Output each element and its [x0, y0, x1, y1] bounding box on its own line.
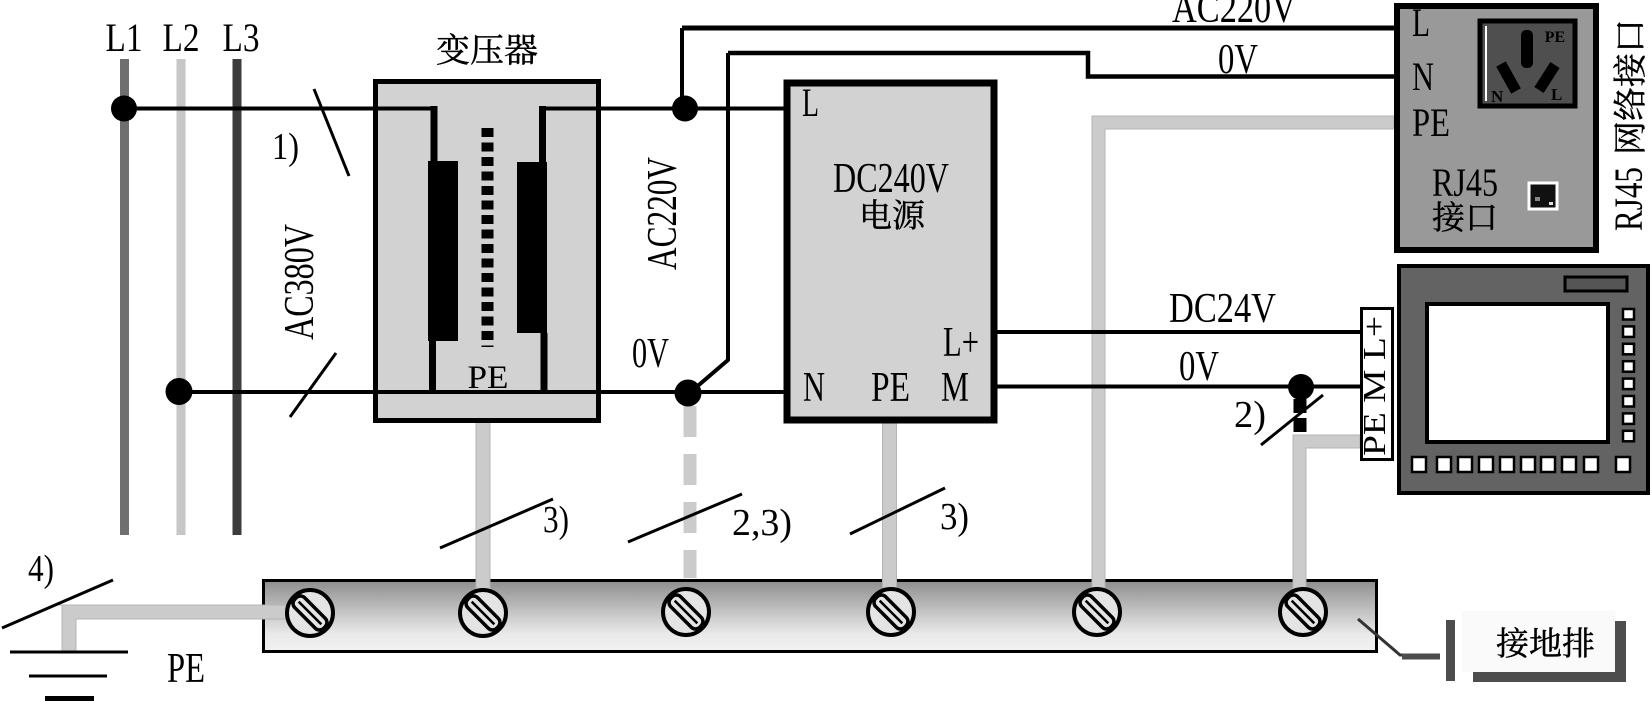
node AC220V junction: [672, 96, 698, 122]
svg-text:AC380V: AC380V: [277, 224, 323, 340]
slash mark 3) right: [850, 488, 945, 534]
wire 0V to RJ45 N (with jog): [728, 53, 1396, 77]
svg-text:PE M L+: PE M L+: [1356, 316, 1392, 456]
svg-text:0V: 0V: [1179, 344, 1219, 390]
svg-text:N: N: [1491, 87, 1504, 106]
wire PE dashed from 0V node to ground bar (gray dashed): [684, 406, 697, 578]
DC supply box: [787, 83, 994, 420]
ground electrode symbol: [10, 652, 128, 699]
svg-text:0V: 0V: [1218, 37, 1258, 83]
svg-text:PE: PE: [1545, 29, 1565, 46]
HMI side keys: [1623, 309, 1634, 441]
svg-text:AC220V: AC220V: [1172, 0, 1296, 32]
transformer title 变压器: [437, 33, 469, 65]
svg-text:3): 3): [940, 496, 969, 538]
screw terminal 5 on ground bar: [1074, 589, 1120, 635]
svg-text:N: N: [1412, 54, 1434, 99]
svg-text:RJ45: RJ45: [1432, 160, 1498, 205]
RJ45 network interface box: [1397, 6, 1596, 250]
slash mark 4): [2, 580, 113, 628]
svg-text:PE: PE: [1412, 100, 1450, 145]
node junction on L2: [166, 378, 193, 405]
transformer core (dashed): [482, 128, 494, 347]
slash mark 2): [1261, 395, 1323, 445]
svg-text:AC220V: AC220V: [640, 157, 686, 270]
transformer secondary winding: [517, 162, 547, 333]
power socket icon: [1480, 21, 1575, 106]
bus L3: [233, 59, 242, 535]
svg-text:4): 4): [28, 548, 54, 590]
screw terminal 3 on ground bar: [663, 589, 709, 635]
wire 0V node to DC supply N: [688, 390, 790, 394]
svg-text:N: N: [803, 365, 825, 411]
svg-text:0V: 0V: [632, 331, 669, 377]
bus L1: [120, 59, 129, 535]
wire PE from DC240V supply to ground bar (gray): [883, 421, 897, 593]
HMI touch panel body: [1399, 266, 1648, 493]
svg-text:2,3): 2,3): [732, 502, 792, 544]
callout line to ground bar: [1358, 619, 1440, 655]
slash mark 1) on L1 wire: [314, 89, 349, 176]
slash mark 2,3): [628, 494, 742, 542]
wire PE from RJ45 box to ground bar (gray L-shape): [1092, 116, 1394, 593]
transformer box: [376, 82, 599, 421]
HMI bottom keys: [1412, 457, 1630, 472]
wire AC220V to RJ45 L: [682, 26, 1396, 31]
svg-text:L3: L3: [223, 15, 260, 60]
HMI screen: [1427, 304, 1608, 442]
HMI top-right slot: [1565, 277, 1627, 291]
screw terminal 6 on ground bar: [1280, 589, 1326, 635]
wire 0V riser: [693, 53, 728, 390]
svg-text:RJ45: RJ45: [1606, 167, 1651, 231]
label AC380V (rotated): [277, 224, 323, 340]
wire 0V M to HMI terminal: [994, 385, 1362, 389]
side label RJ45 网络接口 (rotated): [1606, 22, 1651, 231]
screw terminal 2 on ground bar: [460, 590, 506, 636]
svg-text:L: L: [802, 80, 819, 125]
RJ45 port icon: [1529, 183, 1557, 209]
wire transformer secondary to AC220V node and DC supply L: [539, 107, 790, 111]
bus L2: [177, 59, 186, 535]
svg-text:L1: L1: [106, 15, 143, 60]
svg-text:L: L: [1412, 0, 1430, 45]
wire L2 to transformer / 0V node (bottom): [179, 390, 688, 394]
node 0V junction: [675, 380, 702, 407]
label box 接地排: [1473, 621, 1626, 682]
HMI terminal block: [1362, 309, 1393, 460]
wire AC220V node up: [680, 28, 684, 109]
slash mark on L2 wire: [290, 353, 336, 417]
wire L1 to transformer primary: [124, 107, 437, 111]
callout bracket: [1446, 620, 1455, 681]
svg-text:PE: PE: [167, 646, 205, 692]
wire PE from HMI terminal to ground bar (gray L-shape): [1293, 435, 1360, 593]
label AC220V (rotated, mid): [640, 157, 686, 270]
screw terminal 1 on ground bar: [287, 590, 333, 636]
svg-text:L: L: [1551, 85, 1562, 104]
label 电源: [863, 199, 891, 228]
svg-text:DC24V: DC24V: [1169, 286, 1276, 332]
svg-text:1): 1): [272, 126, 299, 168]
wire PE from transformer to ground bar (gray): [476, 421, 490, 593]
svg-text:3): 3): [543, 499, 569, 541]
wire DC24V L+ to HMI terminal: [994, 330, 1362, 334]
wire PE to ground electrode (gray L-shape, bottom left): [59, 605, 290, 652]
svg-text:DC240V: DC240V: [833, 156, 949, 202]
node junction on L1: [111, 96, 137, 122]
svg-text:2): 2): [1234, 394, 1266, 436]
node 0V junction at HMI: [1288, 374, 1314, 400]
transformer primary winding: [428, 161, 458, 341]
slash mark 3) left: [440, 499, 553, 548]
label 接口: [1433, 201, 1464, 231]
svg-text:PE: PE: [871, 365, 910, 411]
svg-text:L2: L2: [163, 15, 200, 60]
terminal block label PE M L+ (rotated): [1356, 316, 1392, 456]
svg-text:L+: L+: [943, 320, 979, 366]
svg-text:M: M: [941, 365, 969, 411]
screw terminal 4 on ground bar: [868, 589, 914, 635]
dashed stem below HMI 0V node: [1294, 399, 1307, 434]
